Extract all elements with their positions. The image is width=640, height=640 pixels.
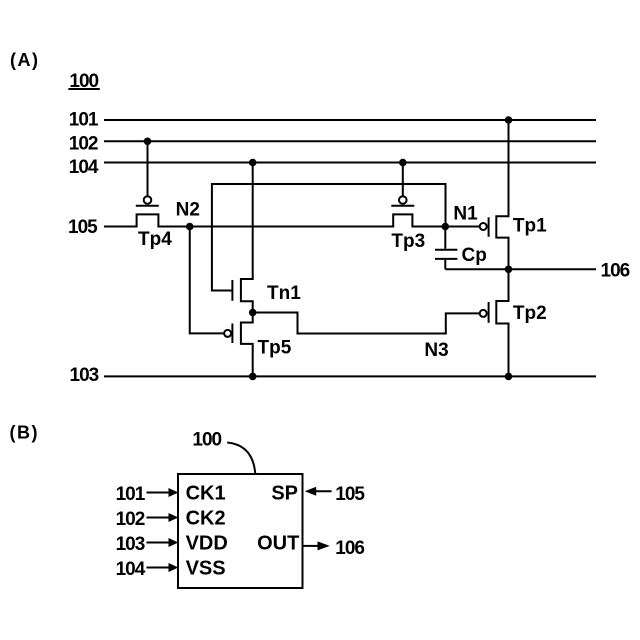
svg-text:CK1: CK1 <box>186 483 226 505</box>
svg-text:103: 103 <box>70 365 99 386</box>
svg-text:Tp2: Tp2 <box>513 303 547 324</box>
svg-text:VSS: VSS <box>186 558 226 580</box>
svg-text:N3: N3 <box>424 340 448 361</box>
svg-text:CK2: CK2 <box>186 508 226 530</box>
svg-text:Cp: Cp <box>462 245 487 266</box>
svg-text:Tp1: Tp1 <box>513 216 547 237</box>
svg-text:106: 106 <box>601 261 630 282</box>
svg-text:N2: N2 <box>176 200 200 221</box>
svg-text:104: 104 <box>116 559 146 580</box>
svg-text:105: 105 <box>68 217 98 238</box>
svg-text:101: 101 <box>116 484 146 505</box>
svg-text:Tp4: Tp4 <box>138 229 172 250</box>
svg-text:100: 100 <box>69 71 98 92</box>
svg-text:103: 103 <box>116 534 145 555</box>
svg-text:(B): (B) <box>10 423 40 443</box>
svg-text:N1: N1 <box>453 203 478 224</box>
svg-text:Tp3: Tp3 <box>391 231 425 252</box>
svg-text:100: 100 <box>192 429 221 450</box>
svg-text:Tp5: Tp5 <box>258 338 292 359</box>
svg-text:OUT: OUT <box>257 533 299 555</box>
svg-text:104: 104 <box>69 157 99 178</box>
svg-text:Tn1: Tn1 <box>267 283 301 304</box>
svg-text:101: 101 <box>69 109 99 130</box>
svg-text:105: 105 <box>335 484 365 505</box>
svg-text:SP: SP <box>271 483 298 505</box>
svg-text:102: 102 <box>69 134 98 155</box>
svg-text:106: 106 <box>335 538 364 559</box>
svg-text:VDD: VDD <box>186 533 228 555</box>
svg-text:(A): (A) <box>10 50 40 70</box>
svg-text:102: 102 <box>116 509 145 530</box>
